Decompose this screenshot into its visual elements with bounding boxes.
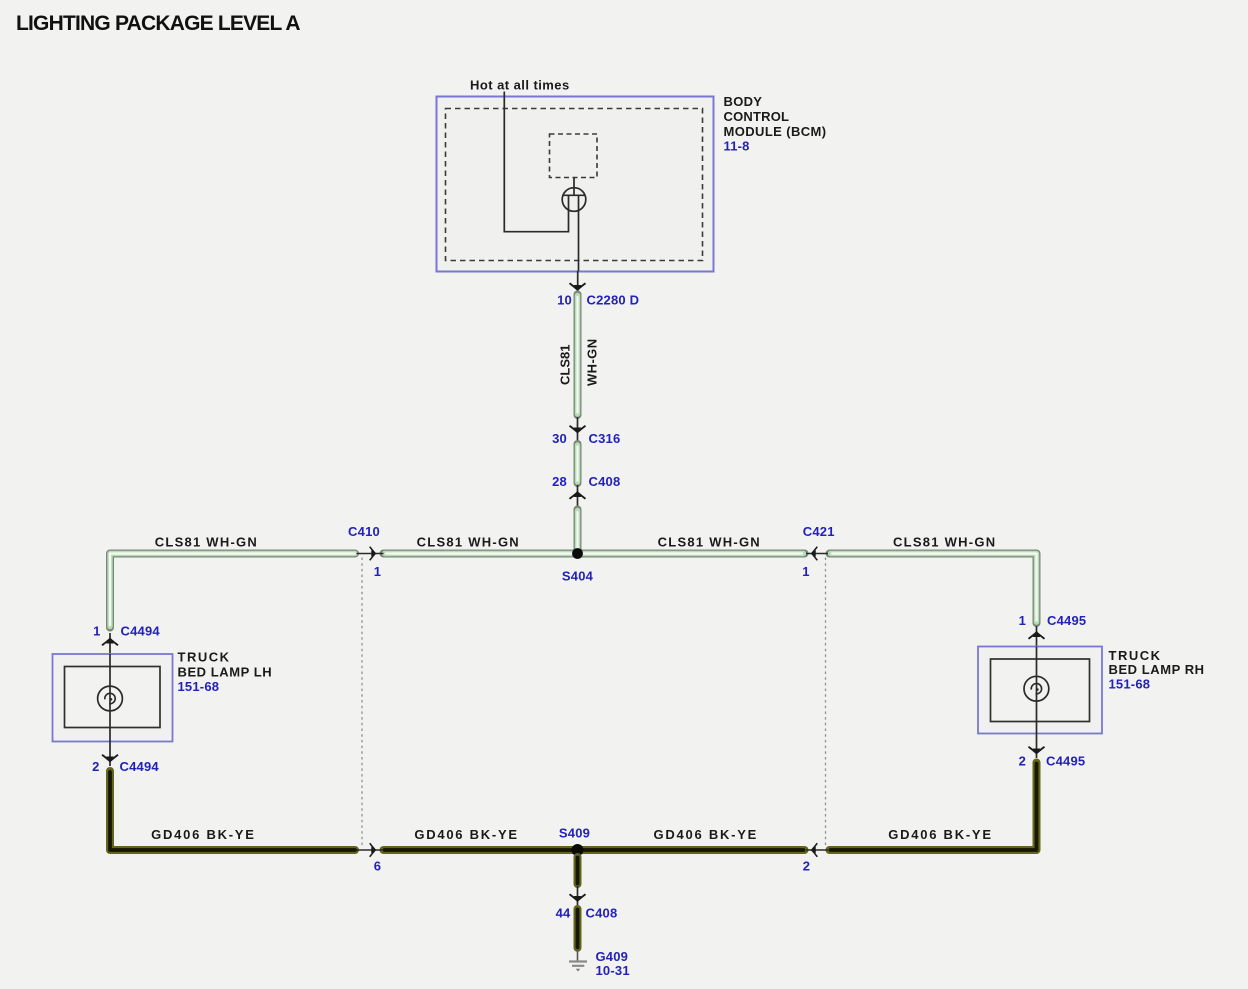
svg-text:C316: C316 [589, 431, 621, 446]
solid-state driver circle inside BCM [562, 188, 586, 212]
wire from sub-block to driver [573, 178, 575, 196]
wire CLS81 bus C410 to S404 [384, 550, 578, 558]
svg-text:10: 10 [557, 293, 572, 308]
wire gap lead at C408 pin 44 [577, 886, 579, 907]
wire BCM pin lead to C2280 [577, 271, 579, 292]
svg-text:2: 2 [92, 759, 99, 774]
wire GD406 to ground [574, 909, 582, 948]
svg-text:1: 1 [93, 624, 100, 639]
svg-text:151-68: 151-68 [178, 679, 220, 694]
arrow out of lamp RH pin 2 [1036, 734, 1038, 759]
svg-text:LIGHTING PACKAGE LEVEL A: LIGHTING PACKAGE LEVEL A [16, 12, 300, 35]
wire CLS81 left bus to truck bed lamp LH [110, 554, 355, 628]
svg-text:2: 2 [1019, 754, 1026, 769]
svg-text:C4494: C4494 [120, 759, 160, 774]
wire GD406 BK-YE from lamp LH to pin 6 [110, 771, 355, 850]
svg-text:BODY: BODY [724, 94, 763, 109]
thin wire across C421 gap [806, 553, 828, 555]
svg-text:C4495: C4495 [1046, 754, 1085, 769]
wire gap lead at C316 [577, 417, 579, 441]
wire GD406 from pin 2 to lamp RH [830, 763, 1037, 851]
arrow at pin 2 crossing [811, 843, 818, 857]
svg-text:GD406 BK-YE: GD406 BK-YE [414, 827, 519, 842]
arrow into C316 [570, 426, 586, 434]
wire CLS81 WH-GN vertical from C2280 to C316 [574, 295, 582, 416]
lamp LH bulb [109, 654, 111, 700]
svg-text:28: 28 [552, 474, 567, 489]
svg-text:151-68: 151-68 [1109, 677, 1151, 692]
wire gap lead at C408 [577, 485, 579, 508]
svg-text:11-8: 11-8 [724, 139, 750, 154]
arrow out of lamp LH pin 2 [109, 742, 111, 767]
svg-text:CLS81 WH-GN: CLS81 WH-GN [155, 535, 258, 550]
svg-text:CLS81 WH-GN: CLS81 WH-GN [893, 535, 996, 550]
svg-text:1: 1 [374, 564, 381, 579]
driver chord bar [563, 194, 585, 196]
svg-text:C410: C410 [348, 524, 380, 539]
svg-text:C408: C408 [586, 906, 618, 921]
wire CLS81 segment C408 to splice S404 [574, 510, 582, 554]
thin wire across pin 6 gap [357, 849, 384, 851]
lamp LH outer box [53, 654, 173, 742]
svg-text:TRUCK: TRUCK [178, 650, 231, 665]
dashed gray line C421 [825, 558, 827, 847]
svg-text:MODULE (BCM): MODULE (BCM) [724, 124, 827, 139]
svg-text:1: 1 [1019, 613, 1026, 628]
svg-text:TRUCK: TRUCK [1109, 648, 1162, 663]
splice S404 [572, 548, 583, 559]
arrow at C421 [811, 547, 818, 561]
wire CLS81 bus C421 to truck bed lamp RH [830, 554, 1037, 624]
thin wire across pin 2 gap [806, 849, 828, 851]
svg-text:C408: C408 [589, 474, 621, 489]
wire GD406 from S409 down [574, 857, 582, 884]
svg-text:Hot at all times: Hot at all times [470, 78, 570, 93]
svg-text:CONTROL: CONTROL [724, 109, 790, 124]
svg-text:C4495: C4495 [1047, 613, 1086, 628]
svg-text:6: 6 [374, 859, 381, 874]
svg-text:G409: G409 [596, 949, 629, 964]
svg-text:WH-GN: WH-GN [585, 339, 600, 387]
thin wire across C410 gap [357, 553, 384, 555]
svg-text:CLS81 WH-GN: CLS81 WH-GN [417, 535, 520, 550]
arrow into C2280 [570, 283, 586, 291]
svg-text:BED LAMP RH: BED LAMP RH [1109, 662, 1205, 677]
svg-text:S409: S409 [559, 826, 590, 841]
dashed gray line C410 [361, 558, 363, 847]
wire GD406 bus S409 to pin 2 [578, 846, 805, 854]
ground G409 symbol [569, 960, 587, 962]
arrow out of C408 [570, 491, 586, 499]
svg-text:S404: S404 [562, 569, 594, 584]
svg-text:C4494: C4494 [121, 624, 161, 639]
wire BCM output leg [578, 195, 580, 271]
arrow at C410 [370, 547, 377, 561]
module U1 BODY CONTROL MODULE (BCM) box [437, 97, 714, 272]
svg-text:CLS81 WH-GN: CLS81 WH-GN [658, 535, 761, 550]
svg-text:1: 1 [802, 564, 809, 579]
arrow into C408 pin 44 [570, 894, 586, 902]
lamp RH inner box [991, 659, 1090, 722]
svg-text:GD406 BK-YE: GD406 BK-YE [151, 827, 256, 842]
ground lead [577, 950, 579, 962]
lamp RH outer box [978, 647, 1102, 734]
svg-text:C2280 D: C2280 D [587, 293, 640, 308]
svg-text:10-31: 10-31 [596, 963, 630, 978]
svg-text:44: 44 [556, 906, 571, 921]
lamp RH bulb [1036, 647, 1038, 691]
svg-text:GD406 BK-YE: GD406 BK-YE [654, 827, 759, 842]
arrow at pin 6 crossing [370, 843, 377, 857]
svg-text:GD406 BK-YE: GD406 BK-YE [888, 827, 993, 842]
svg-text:2: 2 [803, 859, 810, 874]
svg-text:CLS81: CLS81 [558, 345, 573, 385]
BCM inner dashed boundary [446, 109, 703, 261]
wire GD406 bus pin 6 to S409 [384, 846, 578, 854]
arrow into lamp RH pin 1 [1036, 626, 1038, 646]
svg-text:BED LAMP LH: BED LAMP LH [178, 665, 273, 680]
svg-text:C421: C421 [803, 524, 835, 539]
BCM internal dashed sub-block [550, 134, 598, 178]
wire CLS81 bus S404 to C421 [578, 550, 805, 558]
svg-text:30: 30 [552, 431, 567, 446]
arrow into lamp LH pin 1 [109, 633, 111, 654]
wire CLS81 segment C316 to C408 [574, 444, 582, 483]
wire hot feed inside BCM [504, 92, 568, 232]
lamp LH inner box [65, 667, 161, 728]
